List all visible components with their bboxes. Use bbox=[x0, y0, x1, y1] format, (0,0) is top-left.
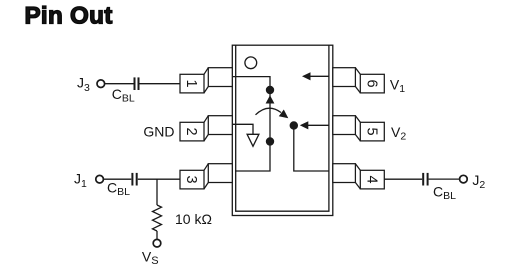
pin 1 lead bbox=[180, 68, 232, 93]
node right contact dot bbox=[290, 121, 298, 129]
pin-1 indicator circle bbox=[245, 57, 257, 69]
wire resistor to Vs bbox=[156, 231, 158, 239]
wire right dot to pin 4 bbox=[294, 126, 329, 172]
wire bottom dot to pin 3 bbox=[235, 142, 270, 172]
wire J1 to cap bbox=[103, 178, 131, 180]
svg-text:GND: GND bbox=[143, 123, 174, 139]
J1 terminal circle bbox=[96, 175, 104, 183]
pin5 arrowhead bbox=[300, 121, 309, 129]
wire cap to pin3 bbox=[138, 178, 180, 180]
svg-text:3: 3 bbox=[183, 176, 199, 184]
IC body inner rect bbox=[236, 45, 329, 211]
svg-text:2: 2 bbox=[183, 128, 199, 136]
svg-text:5: 5 bbox=[364, 128, 380, 136]
capacitor CBL right bbox=[422, 173, 424, 186]
Vs terminal circle bbox=[153, 239, 161, 247]
wire pin4 to cap bbox=[384, 178, 422, 180]
svg-text:10 kΩ: 10 kΩ bbox=[175, 211, 212, 227]
pin 3 lead bbox=[180, 164, 232, 189]
pin 6 lead bbox=[333, 68, 385, 93]
switch pole wire bbox=[269, 90, 271, 142]
switch pole up arrowhead bbox=[266, 95, 275, 103]
arc arrowhead bbox=[279, 110, 289, 119]
svg-text:6: 6 bbox=[364, 80, 380, 88]
wire GND pin2 bbox=[233, 124, 253, 134]
IC body outer rect bbox=[232, 45, 332, 215]
pin 4 lead bbox=[333, 164, 385, 189]
switch action arc bbox=[256, 108, 282, 115]
J3 terminal circle bbox=[97, 80, 105, 88]
pin 2 lead bbox=[180, 116, 232, 141]
J2 terminal circle bbox=[460, 175, 468, 183]
wire junction down to resistor bbox=[156, 179, 158, 205]
wire J3 to cap bbox=[105, 83, 134, 85]
wire pin 5 with arrow bbox=[308, 124, 329, 126]
svg-text:4: 4 bbox=[364, 176, 380, 184]
pin6 arrowhead bbox=[302, 72, 311, 80]
capacitor CBL row3 bbox=[131, 173, 133, 186]
svg-text:1: 1 bbox=[183, 80, 199, 88]
wire pin 6 with arrow bbox=[310, 75, 329, 77]
pin 5 lead bbox=[333, 116, 385, 141]
svg-text:Pin Out: Pin Out bbox=[25, 2, 113, 29]
capacitor CBL row1 bbox=[134, 77, 136, 90]
node bottom dot bbox=[266, 137, 274, 145]
GND open arrowhead bbox=[247, 134, 259, 146]
resistor 10k zigzag bbox=[153, 205, 162, 231]
wire cap to pin1 bbox=[140, 83, 181, 85]
wire pin1 to switch pole bbox=[233, 77, 270, 90]
wire cap to J2 circle bbox=[429, 178, 460, 180]
node top contact dot bbox=[266, 86, 274, 94]
